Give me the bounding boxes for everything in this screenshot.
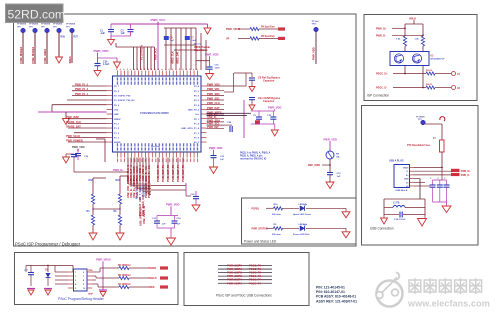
svg-text:PWR_VCC: PWR_VCC xyxy=(151,18,167,22)
svg-text:P0_7: P0_7 xyxy=(114,86,120,88)
svg-text:PWR_ISSP0: PWR_ISSP0 xyxy=(227,264,242,268)
svg-text:VP: VP xyxy=(226,37,230,40)
svg-text:Vdd: Vdd xyxy=(114,109,119,111)
svg-text:4: 4 xyxy=(169,68,170,71)
svg-text:XRES: XRES xyxy=(68,56,72,63)
svg-text:XRES_DAT: XRES_DAT xyxy=(177,51,180,64)
svg-text:www.elecfans.com: www.elecfans.com xyxy=(407,299,490,309)
svg-text:PWR_OUT_P5: PWR_OUT_P5 xyxy=(182,164,185,182)
svg-text:PWR_VD0: PWR_VD0 xyxy=(207,83,220,87)
svg-text:PWR_SD0: PWR_SD0 xyxy=(207,92,220,96)
svg-text:VBUS: VBUS xyxy=(409,17,416,20)
svg-text:PWR_VCC: PWR_VCC xyxy=(155,48,158,60)
svg-text:XRES: XRES xyxy=(148,286,155,289)
svg-text:P1_5_SCL: P1_5_SCL xyxy=(135,186,139,199)
svg-text:PSOC_P5: PSOC_P5 xyxy=(249,281,262,285)
svg-text:R4 22: R4 22 xyxy=(426,83,433,86)
svg-text:4: 4 xyxy=(141,68,142,71)
svg-text:P0_1: P0_1 xyxy=(194,119,200,121)
svg-text:4: 4 xyxy=(196,68,197,71)
svg-text:.1uF: .1uF xyxy=(100,32,105,35)
svg-text:Power LED Red: Power LED Red xyxy=(293,234,310,236)
svg-text:P1_3: P1_3 xyxy=(114,133,120,135)
svg-text:R3 Spa Ohm: R3 Spa Ohm xyxy=(261,36,275,38)
svg-text:4: 4 xyxy=(186,68,187,71)
svg-text:PWR_D+: PWR_D+ xyxy=(376,27,387,30)
svg-text:4: 4 xyxy=(193,68,194,71)
svg-text:SMP: SMP xyxy=(114,114,119,116)
svg-text:1uF: 1uF xyxy=(220,159,225,161)
svg-text:PTC Resettable Fuse: PTC Resettable Fuse xyxy=(407,144,431,147)
svg-text:PSOC_D-: PSOC_D- xyxy=(376,87,387,90)
svg-text:GND_GPIO_P1_4: GND_GPIO_P1_4 xyxy=(181,127,200,130)
svg-text:PWR_D-: PWR_D- xyxy=(461,175,470,177)
svg-text:USB Connection: USB Connection xyxy=(370,227,394,231)
svg-text:TP MODE: TP MODE xyxy=(41,24,51,26)
svg-text:4: 4 xyxy=(151,68,152,71)
svg-text:PWR_CLK: PWR_CLK xyxy=(207,101,220,105)
svg-text:Spare LED Green: Spare LED Green xyxy=(293,214,312,216)
svg-text:4: 4 xyxy=(182,68,183,71)
svg-text:.1uF: .1uF xyxy=(161,224,166,226)
svg-text:4: 4 xyxy=(155,68,156,71)
svg-text:P1_5: P1_5 xyxy=(114,128,120,130)
svg-text:L1 FB: L1 FB xyxy=(393,203,400,205)
svg-text:GND_P2_2: GND_P2_2 xyxy=(188,109,200,111)
svg-text:10uF: 10uF xyxy=(215,67,221,69)
svg-text:Capacitor: Capacitor xyxy=(263,100,275,103)
svg-text:4: 4 xyxy=(127,68,128,71)
svg-text:PWR_VDD: PWR_VDD xyxy=(94,49,110,53)
svg-text:TP MODE: TP MODE xyxy=(53,24,63,26)
svg-text:PWR_OUT_P3: PWR_OUT_P3 xyxy=(172,164,175,182)
svg-text:SPARE_DAT: SPARE_DAT xyxy=(66,125,81,128)
svg-text:USB_VBUS_IN: USB_VBUS_IN xyxy=(142,206,146,224)
svg-text:TP MODE: TP MODE xyxy=(17,24,27,26)
svg-text:P0[2]_A to P0[4]_A, P0[6]_A: P0[2]_A to P0[4]_A, P0[6]_A xyxy=(240,152,271,155)
svg-text:PWR_OUT_P1: PWR_OUT_P1 xyxy=(162,164,165,182)
svg-text:PWR_VDD: PWR_VDD xyxy=(205,53,218,57)
svg-text:PWR_VD1: PWR_VD1 xyxy=(207,87,220,91)
svg-text:P1_6: P1_6 xyxy=(194,123,200,125)
svg-text:Power and Status LED: Power and Status LED xyxy=(244,240,277,244)
svg-text:PWR_GND_IN: PWR_GND_IN xyxy=(147,181,151,198)
svg-text:ISP Connection: ISP Connection xyxy=(367,94,389,98)
svg-text:PSoC ISP Programmer / Debugger: PSoC ISP Programmer / Debugger xyxy=(15,242,81,247)
svg-text:PSOC_D+: PSOC_D+ xyxy=(376,73,388,76)
svg-text:PWR_ISSP5: PWR_ISSP5 xyxy=(227,281,242,285)
svg-text:PWR_P1_1: PWR_P1_1 xyxy=(75,93,89,96)
svg-text:P1_2: P1_2 xyxy=(194,133,200,135)
svg-text:reserved for SW DAC IO: reserved for SW DAC IO xyxy=(240,158,267,161)
svg-text:P1_1: P1_1 xyxy=(114,137,120,139)
svg-text:PSOC_P3: PSOC_P3 xyxy=(249,274,262,278)
svg-text:TP MODE: TP MODE xyxy=(66,24,76,26)
svg-text:P1_7: P1_7 xyxy=(114,123,120,125)
svg-text:P2_5/GPIO_P06_NC: P2_5/GPIO_P06_NC xyxy=(114,100,135,102)
svg-text:GND: GND xyxy=(404,179,409,181)
svg-text:PWR_D+: PWR_D+ xyxy=(113,169,124,172)
svg-text:PWR_D+: PWR_D+ xyxy=(461,171,471,173)
svg-text:C18 0.01uF: C18 0.01uF xyxy=(394,219,406,221)
svg-text:1uF: 1uF xyxy=(121,32,126,35)
svg-text:NTGD4167CF: NTGD4167CF xyxy=(431,58,446,61)
svg-text:PSOC_P1: PSOC_P1 xyxy=(249,267,262,271)
svg-text:D-: D- xyxy=(406,171,408,173)
svg-text:USB Mini B: USB Mini B xyxy=(396,190,408,192)
svg-text:P1_0: P1_0 xyxy=(194,137,200,139)
svg-text:P2_6: P2_6 xyxy=(194,100,200,102)
svg-text:1.0uF: 1.0uF xyxy=(191,40,197,42)
svg-text:PWR_VDD: PWR_VDD xyxy=(313,47,316,60)
svg-text:PWR_D-: PWR_D- xyxy=(376,34,386,37)
svg-text:52RD.com: 52RD.com xyxy=(8,8,66,22)
svg-text:ISSP_SEL: ISSP_SEL xyxy=(142,184,146,197)
svg-text:PWR_ISSP3: PWR_ISSP3 xyxy=(227,274,242,278)
svg-text:PWR_DAT: PWR_DAT xyxy=(207,106,220,110)
svg-text:4: 4 xyxy=(120,68,121,71)
svg-text:1uF: 1uF xyxy=(337,176,342,178)
svg-text:SWDIO: SWDIO xyxy=(148,267,156,270)
svg-text:P2_0: P2_0 xyxy=(194,142,200,144)
svg-text:4: 4 xyxy=(175,68,176,71)
svg-text:ASSY REV: 121-403/07-01: ASSY REV: 121-403/07-01 xyxy=(316,299,357,303)
svg-text:P1_1/XTALIN: P1_1/XTALIN xyxy=(141,45,144,60)
svg-text:4: 4 xyxy=(172,68,173,71)
svg-text:P1_7_SDA: P1_7_SDA xyxy=(138,187,142,200)
svg-text:1uF: 1uF xyxy=(177,224,182,226)
svg-text:P0_4: P0_4 xyxy=(194,85,200,88)
svg-text:PWR_POWER: PWR_POWER xyxy=(66,139,83,142)
svg-text:PWR_VDD: PWR_VDD xyxy=(268,105,281,109)
svg-text:4: 4 xyxy=(144,68,145,71)
svg-text:P1PB1: P1PB1 xyxy=(252,207,260,210)
svg-text:PWR_ISSP: PWR_ISSP xyxy=(66,116,79,119)
svg-text:P0_6: P0_6 xyxy=(114,105,120,107)
svg-text:4: 4 xyxy=(165,68,166,71)
svg-text:.1uF: .1uF xyxy=(170,40,175,42)
svg-text:PWR_OUT_P4: PWR_OUT_P4 xyxy=(177,164,180,182)
svg-text:1.0uF: 1.0uF xyxy=(103,63,110,66)
svg-text:TP MODE: TP MODE xyxy=(29,24,39,26)
svg-text:REF_GND: REF_GND xyxy=(308,164,320,167)
svg-text:PSOC_P2: PSOC_P2 xyxy=(249,271,262,275)
svg-text:P0_5: P0_5 xyxy=(114,91,120,93)
svg-text:PCB ASSY: 610-40148-01: PCB ASSY: 610-40148-01 xyxy=(316,295,356,299)
svg-text:PWR_VBUS: PWR_VBUS xyxy=(226,28,241,31)
svg-text:PWR_VBUS: PWR_VBUS xyxy=(96,258,111,262)
svg-text:R26: R26 xyxy=(61,36,66,39)
svg-text:PWR_ISSP4: PWR_ISSP4 xyxy=(227,278,242,282)
svg-text:PWR_ISSP2: PWR_ISSP2 xyxy=(227,271,242,275)
svg-text:VBUS: VBUS xyxy=(403,168,409,170)
svg-text:PWR_VDD: PWR_VDD xyxy=(324,137,337,141)
svg-text:R27: R27 xyxy=(74,36,79,39)
svg-text:P0[3]_A, P0[5]_A pin: P0[3]_A, P0[5]_A pin xyxy=(240,155,263,158)
svg-text:PWR_P1_5: PWR_P1_5 xyxy=(75,83,89,86)
svg-text:PSoC Program/Debug Header: PSoC Program/Debug Header xyxy=(58,297,105,301)
svg-text:XRES Thermal: XRES Thermal xyxy=(194,47,210,49)
svg-text:220 ohm: 220 ohm xyxy=(272,214,281,216)
svg-text:PWR_VDD: PWR_VDD xyxy=(209,146,222,150)
svg-text:PSoC ISP and PSoC USB Connecti: PSoC ISP and PSoC USB Connections xyxy=(216,294,272,298)
svg-text:SWCLK: SWCLK xyxy=(148,277,157,280)
svg-text:4: 4 xyxy=(134,68,135,71)
svg-text:Capacitor: Capacitor xyxy=(263,80,275,83)
svg-text:XRES*: XRES* xyxy=(114,119,121,121)
svg-text:PWR_ISSP1: PWR_ISSP1 xyxy=(227,267,242,271)
svg-text:PWR_STATUS: PWR_STATUS xyxy=(252,227,269,230)
svg-text:P2_7/GPIO_P05: P2_7/GPIO_P05 xyxy=(114,95,131,97)
svg-text:ISSP: ISSP xyxy=(88,294,94,296)
svg-text:Vss Vss: Vss Vss xyxy=(151,146,160,148)
svg-text:4: 4 xyxy=(158,68,159,71)
svg-text:PWR_MODE0: PWR_MODE0 xyxy=(19,46,23,63)
svg-text:CY8C24894-TLFXC DFN56: CY8C24894-TLFXC DFN56 xyxy=(140,112,169,115)
svg-text:4: 4 xyxy=(162,68,163,71)
svg-text:PWR_MODE1: PWR_MODE1 xyxy=(31,46,35,63)
svg-text:PSOC_P0: PSOC_P0 xyxy=(249,264,262,268)
svg-text:4: 4 xyxy=(179,68,180,71)
svg-text:XRES_CLK: XRES_CLK xyxy=(172,51,175,64)
svg-text:AGND: AGND xyxy=(114,141,121,144)
svg-text:PWR_VDD: PWR_VDD xyxy=(166,203,179,207)
svg-text:4: 4 xyxy=(123,68,124,71)
svg-text:LED2: LED2 xyxy=(299,224,305,226)
svg-text:4: 4 xyxy=(116,68,117,71)
svg-text:P/N: 121-40145-01: P/N: 121-40145-01 xyxy=(316,286,345,290)
svg-text:USB_VREG_5V: USB_VREG_5V xyxy=(139,207,143,226)
svg-text:4: 4 xyxy=(137,68,138,71)
svg-text:4: 4 xyxy=(148,68,149,71)
svg-text:PWR_SD1: PWR_SD1 xyxy=(207,97,220,101)
svg-text:PWR_XRES: PWR_XRES xyxy=(43,49,47,64)
svg-text:Capacitance: Capacitance xyxy=(194,49,208,52)
svg-text:R6 22: R6 22 xyxy=(426,70,433,72)
svg-text:PWR_OUT_P0: PWR_OUT_P0 xyxy=(157,164,160,182)
svg-text:P0_2: P0_2 xyxy=(194,91,200,93)
svg-text:SPARE_CLK: SPARE_CLK xyxy=(66,121,81,124)
svg-text:PWR_INT: PWR_INT xyxy=(207,125,219,129)
svg-text:R4 Spa Ohm: R4 Spa Ohm xyxy=(261,26,275,29)
svg-text:PWR_P1_3: PWR_P1_3 xyxy=(75,88,89,91)
svg-text:PSOC_P4: PSOC_P4 xyxy=(249,278,262,282)
svg-text:P2_4: P2_4 xyxy=(194,104,200,107)
svg-text:4: 4 xyxy=(189,68,190,71)
svg-text:220 ohm: 220 ohm xyxy=(272,234,281,236)
svg-text:USB A PLUG: USB A PLUG xyxy=(389,159,404,162)
svg-text:P/N: 610-40147-01: P/N: 610-40147-01 xyxy=(316,290,345,294)
svg-text:PWR_OUT_P2: PWR_OUT_P2 xyxy=(167,164,170,182)
svg-text:4: 4 xyxy=(130,68,131,71)
svg-text:PWR_VDD: PWR_VDD xyxy=(72,146,85,149)
svg-text:P0_0: P0_0 xyxy=(194,95,200,97)
svg-text:USB_D+_CO: USB_D+_CO xyxy=(147,165,151,181)
svg-text:16 volt: 16 volt xyxy=(194,43,201,46)
svg-text:LED1: LED1 xyxy=(299,204,305,206)
svg-text:PWR_SCLK: PWR_SCLK xyxy=(66,135,80,138)
